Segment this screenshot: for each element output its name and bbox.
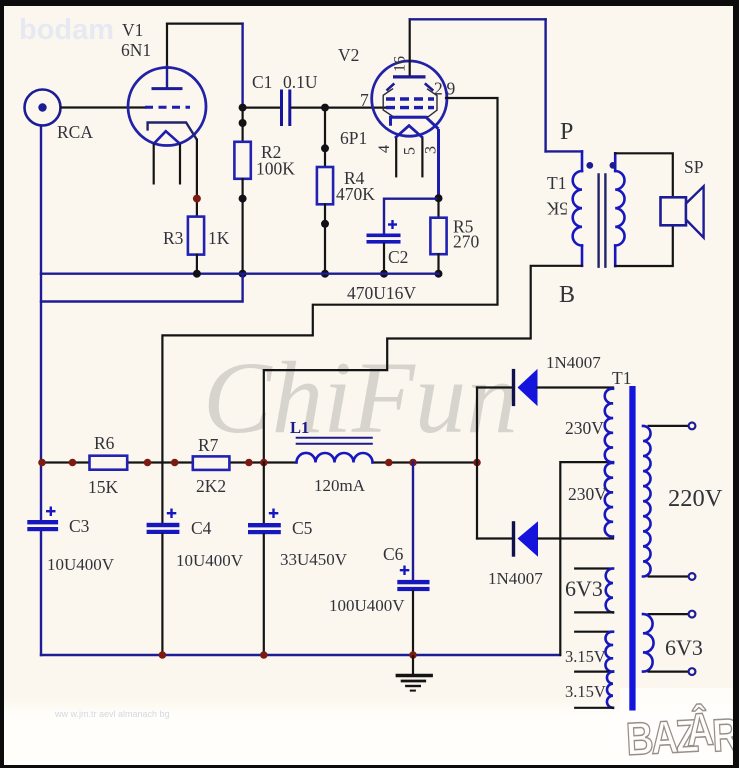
speaker SP [661, 186, 704, 237]
node R7 right [245, 459, 253, 467]
svg-text:C4: C4 [191, 518, 212, 538]
wire R5 to bus [437, 254, 439, 274]
diode D2 [477, 521, 613, 557]
wire node to V2 grid pin7 [325, 106, 385, 108]
filter rail [41, 461, 477, 463]
wire cathode to R5 [437, 198, 439, 218]
svg-text:120mA: 120mA [314, 476, 366, 495]
tube V1 envelope [128, 68, 206, 146]
T1 secondary 6V3 [643, 614, 689, 672]
wire C1 to grid node [292, 106, 326, 108]
node C5 at bottom [260, 651, 268, 659]
V2 heater pins [395, 139, 397, 176]
wire secondary top to speaker [615, 153, 673, 197]
resistor R7 [193, 456, 230, 470]
node cathode R3 [193, 195, 201, 203]
wire cathode to C2 [384, 199, 439, 234]
svg-text:SP: SP [684, 157, 704, 177]
svg-text:R6: R6 [94, 433, 115, 453]
svg-text:V2: V2 [338, 45, 359, 65]
node C6 top [409, 459, 417, 467]
capacitor C1 [280, 90, 291, 127]
node V2 grid [321, 104, 329, 112]
V1 cathode [148, 123, 197, 140]
svg-text:4: 4 [376, 145, 393, 153]
bottom ground bus [41, 654, 560, 656]
wire V1 cathode lead [196, 140, 198, 217]
wire secondary bottom to speaker [615, 225, 673, 266]
svg-text:T1: T1 [612, 368, 631, 388]
node C1 junction [239, 104, 247, 112]
T1 power core [629, 386, 635, 711]
frame borders [0, 0, 739, 6]
wire bus drop to lower return [41, 274, 243, 302]
wire left rail lower [40, 531, 42, 655]
svg-text:5: 5 [402, 147, 419, 155]
wire to diode D2 [476, 463, 478, 539]
wire node down to R4 [324, 108, 326, 167]
T1 secondary 220V [643, 426, 689, 577]
node R4 at bus [321, 270, 329, 278]
terminal 6V3 bottom [689, 668, 696, 675]
resistor R3 [188, 217, 204, 255]
node rectifier out [473, 459, 481, 467]
node L1 right [385, 459, 393, 467]
svg-text:3.15V: 3.15V [565, 682, 606, 701]
terminal 6V3 top [689, 611, 696, 618]
diode D1 [477, 369, 613, 406]
svg-text:9: 9 [447, 79, 456, 99]
svg-text:2: 2 [434, 79, 443, 99]
resistor R6 [90, 456, 128, 470]
svg-text:C6: C6 [383, 544, 404, 564]
svg-text:230V: 230V [568, 484, 607, 504]
svg-text:R3: R3 [163, 228, 184, 248]
capacitor C6 [397, 566, 429, 592]
capacitor C3 [27, 507, 58, 532]
V2 heater [395, 126, 423, 138]
wire C2 to bus [383, 244, 385, 274]
T1 winding 6V3 [575, 569, 613, 613]
node R2 bottom [239, 195, 247, 203]
ground bus [41, 273, 439, 275]
wire C4 upper [161, 463, 163, 523]
capacitor C5 [248, 509, 281, 535]
svg-text:6P1: 6P1 [340, 128, 367, 148]
svg-text:6V3: 6V3 [565, 576, 603, 601]
V1 grid (dashed) [145, 106, 190, 109]
wire R4 to bus [324, 204, 326, 273]
svg-text:V1: V1 [122, 20, 143, 40]
svg-text:3.15V: 3.15V [565, 647, 606, 666]
svg-text:470U16V: 470U16V [347, 283, 416, 303]
node R6 right [144, 459, 152, 467]
resistor R5 [430, 218, 446, 255]
tube V2 envelope [372, 61, 447, 136]
node C6 at bottom [409, 651, 417, 659]
wire node to C1 [244, 106, 280, 108]
node rail left [38, 459, 46, 467]
resistor R4 [317, 167, 333, 204]
svg-text:220V: 220V [668, 485, 723, 512]
svg-text:100K: 100K [256, 159, 295, 179]
svg-text:bodam: bodam [19, 14, 114, 46]
svg-text:6V3: 6V3 [665, 635, 703, 660]
wire B from output transformer [264, 266, 582, 463]
RCA jack J1 [25, 90, 61, 126]
V2 grids (dashed) [386, 99, 434, 108]
resistor R2 [234, 142, 250, 179]
T1 output phase dot right [610, 162, 617, 169]
svg-text:15K: 15K [88, 477, 119, 497]
node C4 at bottom [159, 651, 167, 659]
wire C4 lower [161, 534, 163, 655]
svg-text:10U400V: 10U400V [47, 555, 115, 574]
V2 plate [393, 19, 426, 77]
svg-text:1N4007: 1N4007 [488, 569, 543, 588]
svg-text:1N4007: 1N4007 [546, 353, 601, 372]
node R4 bottom [321, 220, 329, 228]
choke L1 [290, 418, 373, 463]
node R5 at bus [435, 270, 443, 278]
node below C1 junction [239, 119, 247, 127]
node R3 at bus [193, 270, 201, 278]
svg-text:100U400V: 100U400V [329, 596, 405, 615]
wire center tap [560, 462, 613, 655]
node B feed [260, 459, 268, 467]
svg-text:RCA: RCA [57, 122, 93, 142]
svg-text:16: 16 [392, 56, 409, 72]
svg-text:33U450V: 33U450V [280, 550, 348, 569]
wire R2 to bus [242, 179, 244, 274]
wire C5 lower [263, 534, 265, 655]
wire V2 screen pin9 [162, 98, 497, 463]
wire RCA to V1 grid [61, 106, 146, 108]
node C2 at bus [380, 270, 388, 278]
terminal 220V bottom [689, 573, 696, 580]
svg-text:C1: C1 [252, 72, 272, 92]
svg-text:R7: R7 [198, 435, 219, 455]
svg-text:C2: C2 [388, 247, 408, 267]
T1 output phase dot left [586, 162, 593, 169]
T1 output right winding [615, 153, 624, 266]
svg-text:P: P [560, 119, 573, 145]
capacitor C2 [367, 220, 401, 244]
V1 heater [154, 131, 180, 144]
T1 output core [599, 173, 606, 268]
capacitor C4 [147, 509, 180, 535]
svg-text:5K: 5K [546, 199, 568, 219]
transformer T1 output left winding [546, 151, 582, 265]
svg-text:6N1: 6N1 [121, 40, 151, 60]
wire C6 upper [412, 463, 414, 580]
wire V2 plate to P rail [410, 19, 546, 151]
svg-text:1K: 1K [208, 228, 230, 248]
wire V2 cathode lead [437, 129, 440, 198]
svg-text:470K: 470K [336, 184, 375, 204]
node R4 top [321, 144, 329, 152]
svg-text:T1: T1 [547, 173, 566, 193]
node R7 left [171, 459, 179, 467]
V2 cathode [391, 117, 439, 129]
wire C6 lower [412, 591, 414, 655]
T1 winding 230V bottom [605, 463, 613, 537]
V1 plate [152, 24, 183, 89]
svg-text:ww w.jm.tr aevl almanach bg: ww w.jm.tr aevl almanach bg [54, 709, 170, 719]
wire left rail upper [40, 126, 42, 521]
svg-text:C5: C5 [292, 518, 313, 538]
svg-text:3: 3 [423, 146, 440, 154]
svg-text:7: 7 [360, 90, 369, 110]
T1 winding 3.15V second [575, 672, 613, 708]
node cathode network [435, 194, 443, 202]
node rail x73 [69, 459, 77, 467]
wire R3 to ground bus [196, 255, 198, 274]
svg-text:2K2: 2K2 [196, 476, 226, 496]
svg-text:B: B [559, 282, 575, 308]
wire V1 plate to node [167, 24, 243, 108]
svg-text:0.1U: 0.1U [283, 72, 318, 92]
ground symbol [396, 655, 433, 691]
svg-text:10U400V: 10U400V [176, 551, 244, 570]
wire node to R2 [242, 108, 244, 142]
wire rectifier output [476, 388, 478, 463]
svg-text:L1: L1 [290, 418, 309, 437]
wire C5 upper [263, 463, 265, 524]
svg-text:270: 270 [453, 232, 480, 252]
svg-text:230V: 230V [565, 418, 604, 438]
terminal 220V top [689, 423, 696, 430]
V1 heater pins [153, 145, 155, 184]
T1 primary winding 230V top [605, 389, 613, 463]
T1 winding 3.15V first [575, 632, 613, 672]
watermark BAZAR [624, 700, 739, 765]
V2 beam electrodes [383, 83, 437, 116]
node R2 at bus [239, 270, 247, 278]
svg-text:C3: C3 [69, 516, 90, 536]
